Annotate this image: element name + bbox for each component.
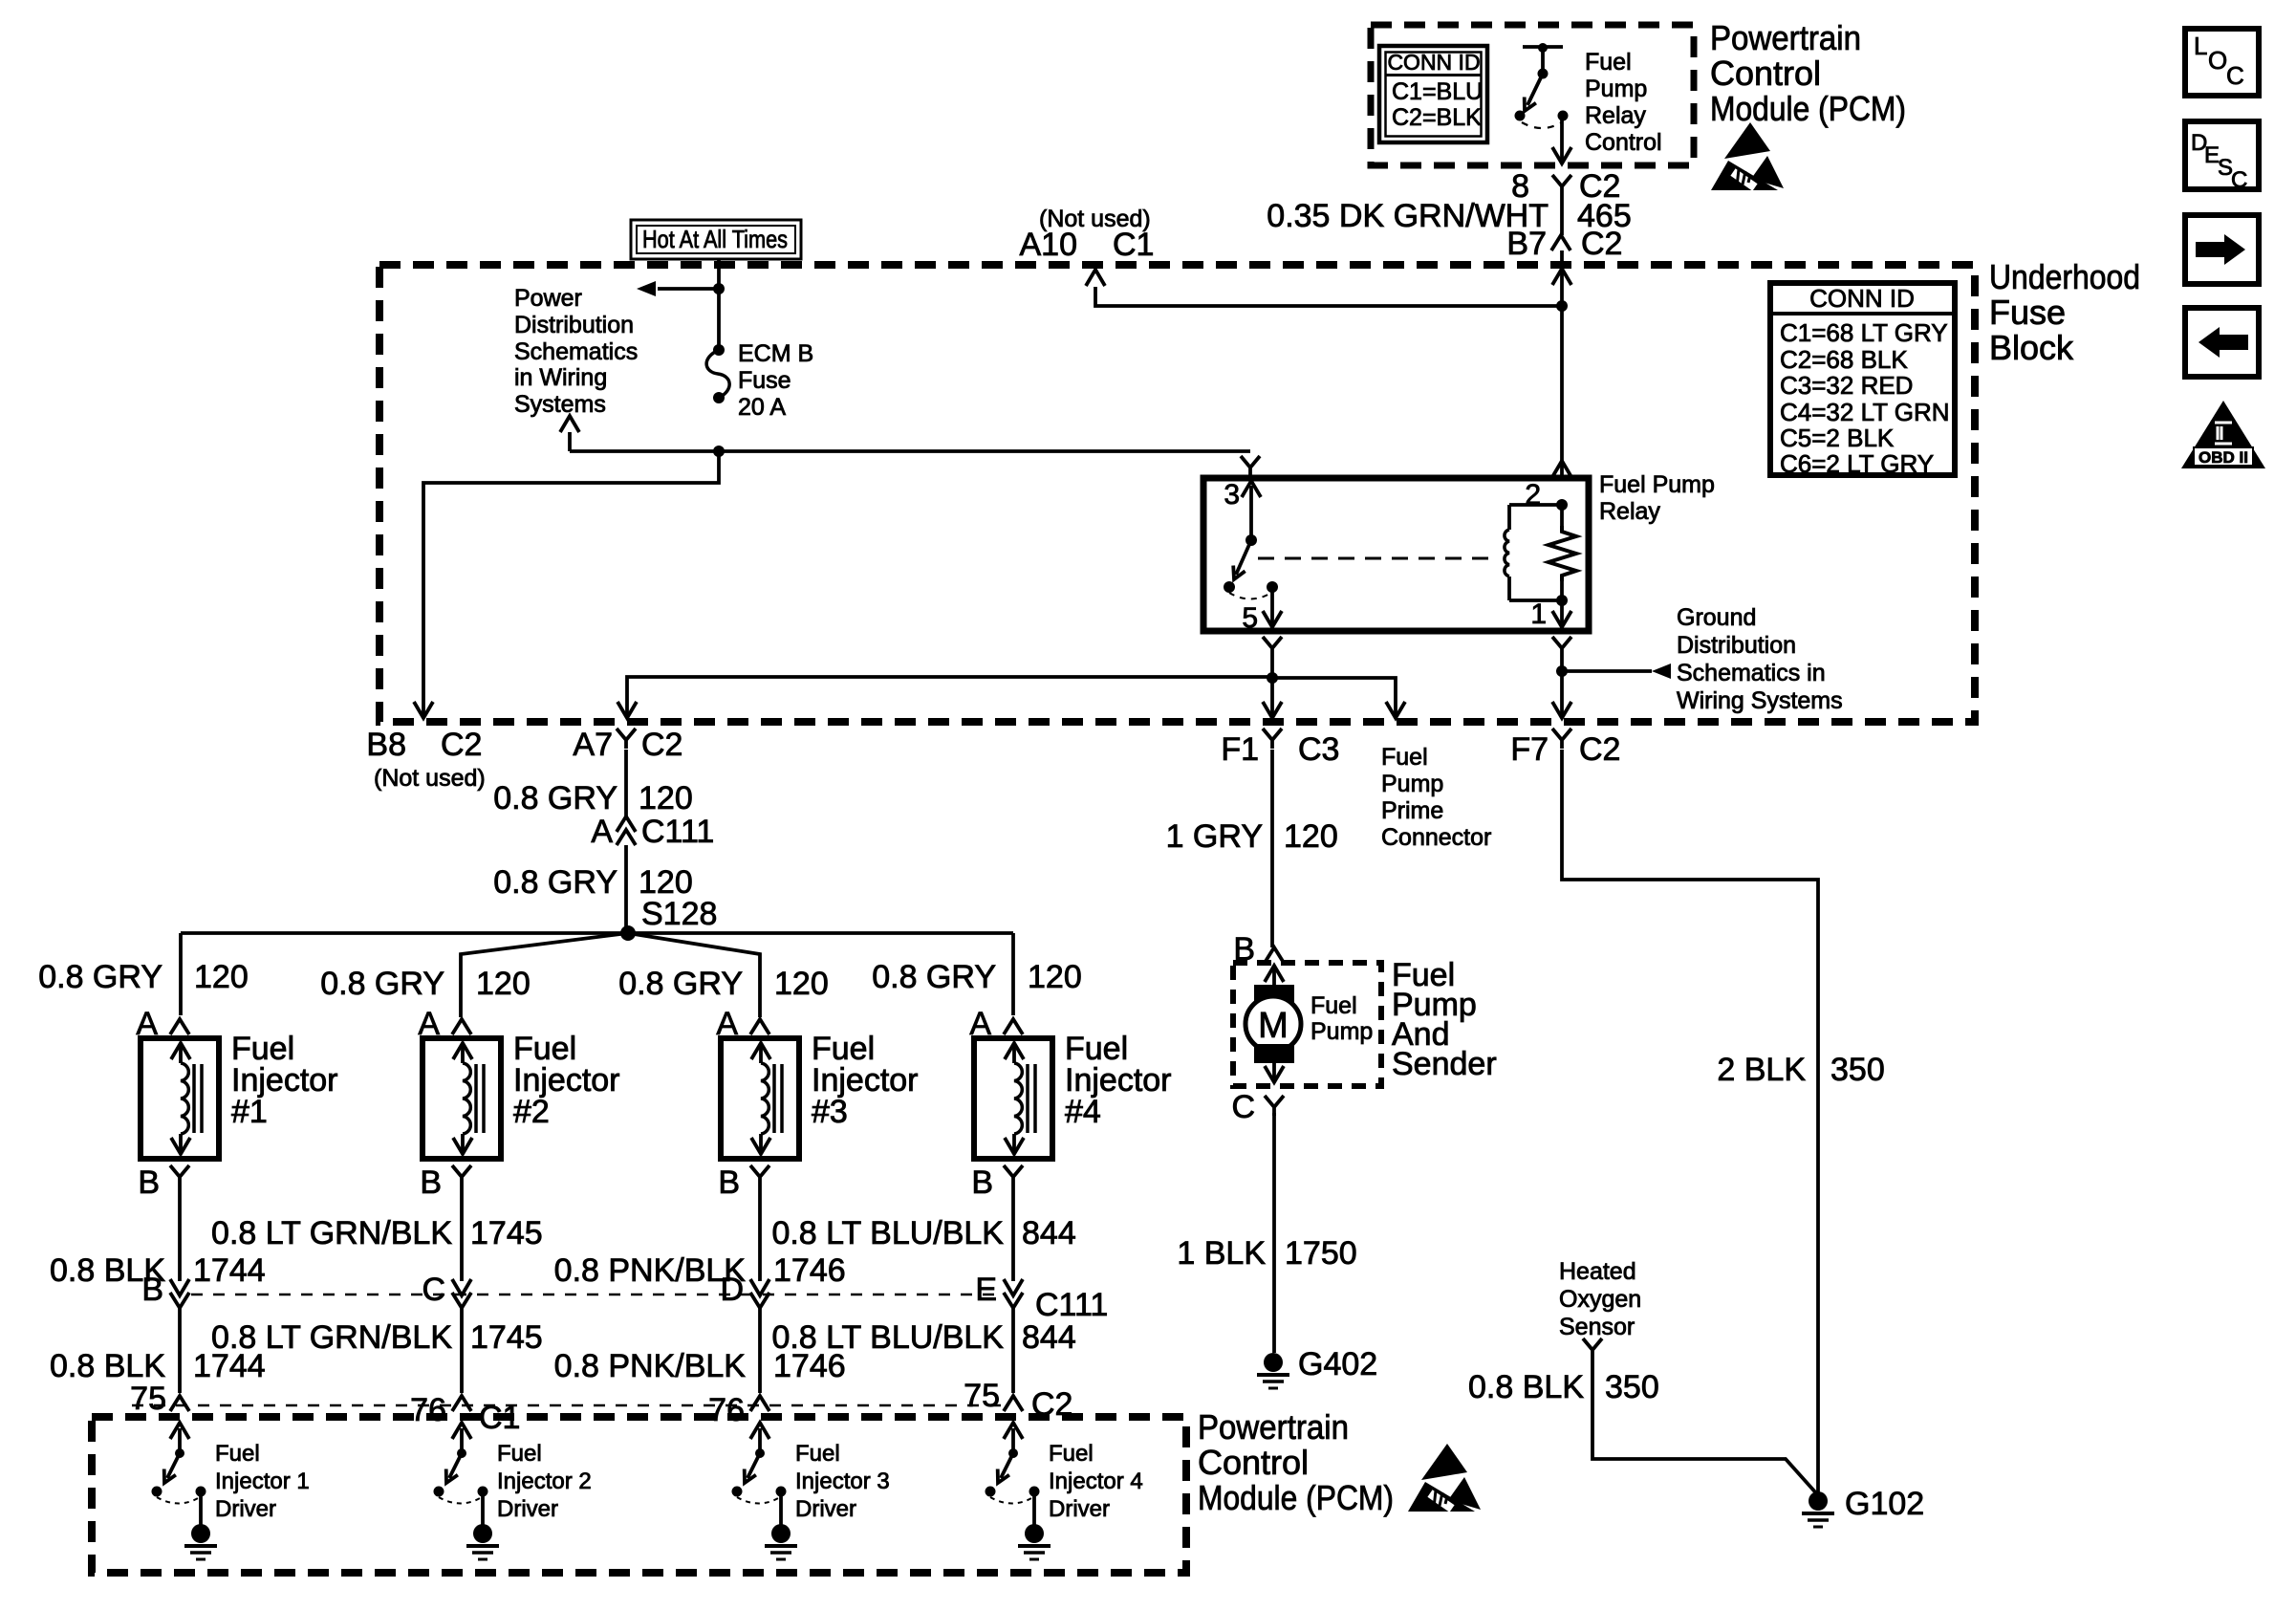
- label: 0.8 LT BLU/BLK 844 upper: [771, 1215, 1075, 1251]
- ground: G102: [1809, 1491, 1828, 1511]
- svg-text:#2: #2: [513, 1094, 550, 1130]
- svg-text:Fuse: Fuse: [738, 367, 791, 394]
- fuel injector #3 solenoid: [721, 1038, 799, 1159]
- svg-text:C2: C2: [441, 727, 482, 763]
- connector: pin C fuel pump: [1231, 1089, 1284, 1125]
- svg-text:120: 120: [476, 966, 531, 1002]
- connector: F7 / C2: [1510, 729, 1620, 768]
- svg-text:0.8 LT GRN/BLK: 0.8 LT GRN/BLK: [211, 1319, 452, 1356]
- svg-text:Module (PCM): Module (PCM): [1198, 1478, 1394, 1517]
- switch: fuel injector 4 driver: [986, 1423, 1040, 1525]
- label: Fuel Injector #1: [231, 1031, 338, 1130]
- svg-text:Block: Block: [1989, 328, 2074, 367]
- svg-text:Module (PCM): Module (PCM): [1710, 89, 1906, 128]
- svg-text:C: C: [2231, 167, 2247, 193]
- wire: branch to A10 (Not used): [1095, 287, 1562, 306]
- CONN ID table (PCM): C1=BLU C2=BLK: [1379, 46, 1487, 142]
- svg-text:C111: C111: [641, 814, 714, 850]
- svg-text:1 GRY: 1 GRY: [1166, 818, 1263, 855]
- svg-text:C2: C2: [1581, 226, 1622, 262]
- svg-text:#1: #1: [231, 1094, 268, 1130]
- svg-text:C2=BLK: C2=BLK: [1392, 104, 1482, 131]
- icon: ESD warning triangles (bottom): [1408, 1444, 1481, 1512]
- node: relay pin2 junction: [1556, 499, 1568, 511]
- svg-text:Driver: Driver: [215, 1496, 276, 1522]
- connector: PCM pin 76 (injector 2): [452, 1396, 471, 1411]
- wire: arrow to Power Distribution Schematics: [658, 287, 719, 291]
- wire: S128 to injector 2 branch: [461, 933, 628, 1017]
- svg-text:B7: B7: [1506, 226, 1547, 262]
- switch: fuel injector 1 driver: [152, 1423, 206, 1525]
- svg-text:Control: Control: [1198, 1443, 1309, 1482]
- connector: pin B injector 3: [718, 1164, 769, 1201]
- label: 0.8 GRY 120 (injector 3): [618, 966, 829, 1002]
- svg-text:#4: #4: [1065, 1094, 1101, 1130]
- label: Fuel Pump Relay Control: [1585, 49, 1662, 156]
- wire: junction to A7: [627, 677, 1272, 715]
- label: Fuel Injector #2: [513, 1031, 620, 1130]
- label: 0.8 BLK 1744 lower: [50, 1348, 266, 1384]
- svg-text:C5=2 BLK: C5=2 BLK: [1780, 424, 1895, 452]
- svg-text:OBD II: OBD II: [2199, 448, 2248, 467]
- svg-text:Sender: Sender: [1392, 1046, 1497, 1082]
- svg-text:0.8 GRY: 0.8 GRY: [872, 959, 996, 995]
- connector: A10 / C1: [1020, 227, 1155, 263]
- wire: pin1 to F7: [1560, 657, 1564, 715]
- svg-text:CONN ID: CONN ID: [1387, 50, 1480, 75]
- wire: injector 2 to C111: [460, 1186, 464, 1281]
- svg-text:C6=2 LT GRY: C6=2 LT GRY: [1780, 449, 1934, 478]
- svg-text:1744: 1744: [193, 1252, 266, 1289]
- svg-text:G102: G102: [1845, 1486, 1924, 1522]
- svg-text:C2: C2: [1579, 731, 1620, 768]
- svg-text:2: 2: [1525, 479, 1541, 511]
- label: pin 76 C1 (injector2): [410, 1392, 520, 1436]
- label: Fuel Injector 1 Driver: [215, 1441, 310, 1522]
- svg-text:1 BLK: 1 BLK: [1177, 1235, 1266, 1272]
- label: 2 BLK 350: [1717, 1052, 1884, 1088]
- label: Fuel Injector 3 Driver: [795, 1441, 890, 1522]
- svg-text:Driver: Driver: [1049, 1496, 1110, 1522]
- relay coil: [1505, 505, 1562, 600]
- svg-text:C2: C2: [641, 727, 682, 763]
- connector: pin B fuel pump: [1233, 931, 1284, 968]
- wire: F7 to G102: [1562, 750, 1818, 1493]
- svg-text:2 BLK: 2 BLK: [1717, 1052, 1806, 1088]
- svg-text:CONN ID: CONN ID: [1809, 284, 1915, 313]
- connector: A / C111 inline: [591, 814, 714, 850]
- node: relay pin1 junction: [1556, 595, 1568, 606]
- svg-text:Driver: Driver: [795, 1496, 856, 1522]
- svg-text:Injector 3: Injector 3: [795, 1469, 890, 1494]
- icon: right arrow box: [2185, 215, 2259, 284]
- svg-text:120: 120: [1284, 818, 1338, 855]
- fuel injector #1 solenoid: [141, 1038, 219, 1159]
- svg-text:Injector 4: Injector 4: [1049, 1469, 1143, 1494]
- svg-text:C: C: [1231, 1089, 1255, 1125]
- connector: C111 inline below injector 1: [141, 1272, 189, 1308]
- svg-text:0.8 BLK: 0.8 BLK: [50, 1348, 165, 1384]
- connector: pin A injector 1: [136, 1006, 189, 1042]
- connector: pin A injector 4: [969, 1006, 1023, 1042]
- wire: to ground distribution arrow: [1562, 669, 1652, 673]
- svg-text:0.8 BLK: 0.8 BLK: [50, 1252, 165, 1289]
- label: 0.35 DK GRN/WHT 465: [1267, 198, 1631, 234]
- ground: injector 3 driver ground: [771, 1524, 791, 1543]
- connector: relay pin 3 entry: [1241, 456, 1260, 476]
- svg-text:Pump: Pump: [1585, 76, 1647, 102]
- connector: B7 / C2 at fuse block: [1506, 226, 1622, 262]
- svg-text:76: 76: [708, 1392, 745, 1428]
- svg-text:C: C: [2226, 61, 2244, 90]
- svg-text:Oxygen: Oxygen: [1559, 1286, 1641, 1313]
- label: 0.8 PNK/BLK 1746 upper: [554, 1252, 846, 1289]
- wire: O2 sensor ground to G102: [1592, 1359, 1818, 1495]
- svg-text:Schematics in: Schematics in: [1677, 660, 1826, 686]
- label: Powertrain Control Module (PCM) title: [1710, 18, 1906, 128]
- svg-text:75: 75: [130, 1381, 166, 1417]
- wire: S128 to injector 3 branch: [628, 933, 760, 1017]
- svg-text:M: M: [1258, 1006, 1289, 1046]
- wire: S128 bus: [181, 931, 1013, 935]
- connector: B8 / C2 (Not used): [366, 727, 485, 792]
- connector: F1 / C3: [1221, 729, 1339, 768]
- svg-text:Systems: Systems: [514, 391, 606, 418]
- svg-text:Hot At All Times: Hot At All Times: [642, 225, 788, 253]
- wire: relay pin 5 internal: [1270, 587, 1274, 623]
- ground: injector 1 driver ground: [191, 1524, 210, 1543]
- motor: fuel pump: [1245, 966, 1301, 1082]
- fuel injector #4 solenoid: [974, 1038, 1052, 1159]
- svg-text:Fuel Pump: Fuel Pump: [1599, 471, 1715, 498]
- icon: OBD II triangle: [2181, 401, 2265, 468]
- connector line: C111 dashed: [191, 1294, 1002, 1296]
- svg-text:0.8 LT BLU/BLK: 0.8 LT BLU/BLK: [771, 1215, 1004, 1251]
- label: 0.8 LT GRN/BLK 1745 lower: [211, 1319, 543, 1356]
- label: Power Distribution Schematics in Wiring Systems: [514, 285, 638, 418]
- connector: pin B injector 4: [971, 1164, 1023, 1201]
- wire: C111 to PCM pin (injector 4): [1011, 1308, 1015, 1393]
- svg-text:in Wiring: in Wiring: [514, 364, 607, 391]
- svg-text:1: 1: [1530, 598, 1547, 630]
- wire: coil/resistor to pin 2: [1560, 505, 1564, 526]
- label: 0.8 GRY 120 (A7): [493, 780, 693, 816]
- svg-text:Driver: Driver: [497, 1496, 558, 1522]
- ground: G402: [1264, 1353, 1283, 1372]
- svg-text:Wiring Systems: Wiring Systems: [1677, 687, 1843, 714]
- module box: Powertrain Control Module (PCM), top: [1371, 25, 1694, 165]
- svg-text:Sensor: Sensor: [1559, 1314, 1635, 1340]
- wire: injector 3 to C111: [758, 1186, 762, 1281]
- svg-text:F1: F1: [1221, 731, 1259, 768]
- node: splice S128: [620, 925, 636, 941]
- connector: relay pin 1 exit: [1552, 637, 1571, 657]
- svg-text:120: 120: [1028, 959, 1082, 995]
- fuse F1: ECM B Fuse 20 A: [706, 344, 729, 403]
- wire: Hot At All Times feed down to fuse: [717, 259, 721, 350]
- label: 1 BLK 1750: [1177, 1235, 1356, 1272]
- svg-text:Relay: Relay: [1599, 498, 1660, 525]
- ground: injector 4 driver ground: [1025, 1524, 1044, 1543]
- svg-text:5: 5: [1242, 602, 1258, 634]
- svg-text:120: 120: [774, 966, 829, 1002]
- label: Underhood Fuse Block title: [1989, 257, 2140, 367]
- svg-text:Injector 1: Injector 1: [215, 1469, 310, 1494]
- label: 0.8 BLK 1744 upper: [50, 1252, 266, 1289]
- label: 0.8 BLK 350 (O2): [1468, 1369, 1659, 1405]
- svg-text:Distribution: Distribution: [514, 312, 634, 338]
- label: Fuel Pump (inside box): [1310, 992, 1373, 1045]
- svg-text:Connector: Connector: [1381, 824, 1491, 851]
- connector: relay pin 5 exit: [1263, 637, 1282, 657]
- svg-text:844: 844: [1022, 1319, 1076, 1356]
- wire: fuse to relay pin 3: [719, 449, 1250, 453]
- module box: Fuel Pump And Sender: [1233, 963, 1381, 1086]
- svg-text:C111: C111: [1035, 1287, 1108, 1323]
- svg-text:Injector 2: Injector 2: [497, 1469, 592, 1494]
- label: 0.8 GRY 120 (injector 2): [320, 966, 531, 1002]
- svg-text:Underhood: Underhood: [1989, 257, 2140, 296]
- label: 0.8 LT GRN/BLK 1745 upper: [211, 1215, 543, 1251]
- node: junction below fuse: [713, 446, 725, 457]
- svg-text:120: 120: [639, 780, 693, 816]
- connector: C111 inline below injector 2: [422, 1272, 471, 1308]
- svg-text:C1: C1: [1113, 227, 1154, 263]
- svg-text:76: 76: [410, 1392, 446, 1428]
- wire: F1 to fuel pump B: [1270, 750, 1274, 947]
- svg-text:L: L: [2194, 32, 2207, 60]
- connector: pin B injector 2: [420, 1164, 471, 1201]
- node: junction at power feed: [713, 283, 725, 294]
- svg-text:Distribution: Distribution: [1677, 632, 1796, 659]
- wire: S128 to injector 4 branch: [1011, 933, 1015, 1015]
- label: 0.8 PNK/BLK 1746 lower: [554, 1348, 846, 1384]
- svg-text:Control: Control: [1585, 129, 1662, 156]
- svg-text:Fuel: Fuel: [1310, 992, 1357, 1019]
- module box: Underhood Fuse Block: [379, 265, 1975, 722]
- svg-text:350: 350: [1830, 1052, 1885, 1088]
- svg-text:Pump: Pump: [1310, 1018, 1373, 1045]
- switch: relay contact arm: [1224, 534, 1278, 599]
- connector: pin B injector 1: [138, 1164, 189, 1201]
- module box: Powertrain Control Module (PCM), bottom: [92, 1417, 1186, 1573]
- label: ECM B Fuse 20 A: [738, 340, 813, 421]
- svg-text:A7: A7: [573, 727, 613, 763]
- svg-text:0.8 GRY: 0.8 GRY: [493, 780, 617, 816]
- svg-text:Fuse: Fuse: [1989, 293, 2066, 332]
- label: Fuel Injector #4: [1065, 1031, 1172, 1130]
- node: junction pin5 wire: [1267, 672, 1278, 684]
- svg-text:Fuel: Fuel: [497, 1441, 542, 1467]
- wire: PCM pin 8 to B7: [1560, 195, 1564, 235]
- label: Ground Distribution Schematics in Wiring Systems: [1677, 604, 1843, 714]
- ground: injector 2 driver ground: [473, 1524, 492, 1543]
- svg-text:3: 3: [1224, 479, 1240, 511]
- label: Fuel Pump And Sender: [1392, 957, 1497, 1082]
- svg-text:0.8 BLK: 0.8 BLK: [1468, 1369, 1584, 1405]
- wire: injector 1 to C111: [178, 1186, 182, 1281]
- node: junction pin1 wire: [1556, 665, 1568, 677]
- wire: relay pin 3 internal: [1249, 486, 1253, 540]
- svg-text:A10: A10: [1020, 227, 1078, 263]
- relay box: Fuel Pump Relay: [1203, 478, 1589, 631]
- svg-text:E: E: [975, 1272, 997, 1308]
- wire: C111 to S128: [624, 845, 628, 933]
- svg-text:#3: #3: [812, 1094, 848, 1130]
- svg-text:0.8 GRY: 0.8 GRY: [493, 864, 617, 901]
- label: Heated Oxygen Sensor: [1559, 1258, 1641, 1340]
- switch: fuel pump relay control driver (inside PCM): [1515, 43, 1572, 163]
- svg-text:F7: F7: [1510, 731, 1549, 768]
- svg-text:75: 75: [964, 1378, 1000, 1414]
- svg-text:B: B: [420, 1164, 442, 1201]
- svg-text:Fuel: Fuel: [215, 1441, 260, 1467]
- connector: PCM pin 76 (injector 3): [750, 1396, 769, 1411]
- label: pin 75 C2 (injector4): [964, 1378, 1072, 1423]
- svg-text:O: O: [2208, 46, 2227, 75]
- connector: pin A injector 2: [418, 1006, 471, 1042]
- box: Hot At All Times tag: [631, 220, 801, 259]
- wire: C111 to PCM pin (injector 2): [460, 1308, 464, 1393]
- svg-text:Ground: Ground: [1677, 604, 1756, 631]
- wire: arrow up to Power Distribution (second): [570, 449, 719, 453]
- label: 1 GRY 120: [1166, 818, 1338, 855]
- relay resistor: [1549, 526, 1576, 581]
- svg-text:C1=BLU: C1=BLU: [1392, 78, 1483, 105]
- svg-text:B: B: [138, 1164, 160, 1201]
- connector: C111 inline below injector 3: [720, 1272, 769, 1308]
- icon: ESD warning triangles (top): [1711, 122, 1784, 190]
- wire: B7 down to relay pin 2: [1560, 268, 1564, 476]
- label: Fuel Pump Prime Connector: [1381, 744, 1491, 851]
- label: Fuel Injector 2 Driver: [497, 1441, 592, 1522]
- svg-text:Fuel: Fuel: [1381, 744, 1428, 771]
- svg-text:0.8 GRY: 0.8 GRY: [320, 966, 444, 1002]
- wire: into fuse block at B7: [1560, 250, 1564, 266]
- svg-text:0.8 GRY: 0.8 GRY: [618, 966, 743, 1002]
- svg-text:B: B: [971, 1164, 993, 1201]
- svg-text:Pump: Pump: [1381, 771, 1443, 797]
- svg-text:Relay: Relay: [1585, 102, 1646, 129]
- svg-text:Fuel: Fuel: [795, 1441, 840, 1467]
- connector: PCM pin 75 (injector 1): [170, 1396, 189, 1411]
- wire: injector 4 to C111: [1011, 1186, 1015, 1281]
- svg-text:Schematics: Schematics: [514, 338, 638, 365]
- svg-text:C1=68 LT GRY: C1=68 LT GRY: [1780, 318, 1948, 347]
- label: 0.8 LT BLU/BLK 844 lower: [771, 1319, 1075, 1356]
- svg-text:C4=32 LT GRN: C4=32 LT GRN: [1780, 398, 1950, 426]
- wire: pin1 internal: [1560, 581, 1564, 600]
- svg-text:Control: Control: [1710, 54, 1821, 93]
- node: junction at B7 wire: [1556, 300, 1568, 312]
- switch: fuel injector 3 driver: [732, 1423, 787, 1525]
- svg-text:20 A: 20 A: [738, 394, 786, 421]
- label: Fuel Pump Relay: [1599, 471, 1715, 525]
- svg-text:844: 844: [1022, 1215, 1076, 1251]
- icon: left arrow box: [2185, 308, 2259, 377]
- svg-text:1746: 1746: [773, 1252, 846, 1289]
- wire: S128 to injector 1 branch: [179, 933, 183, 1015]
- svg-text:0.8 PNK/BLK: 0.8 PNK/BLK: [554, 1348, 747, 1384]
- svg-text:Fuel: Fuel: [1049, 1441, 1094, 1467]
- icon: DESC box: [2185, 121, 2259, 193]
- label: Powertrain Control Module (PCM) bottom title: [1198, 1407, 1394, 1517]
- label: 0.8 GRY 120 (injector 4): [872, 959, 1082, 995]
- svg-text:Prime: Prime: [1381, 797, 1443, 824]
- wire: pin5 to F1: [1270, 657, 1274, 715]
- svg-text:C2=68 BLK: C2=68 BLK: [1780, 345, 1908, 374]
- svg-text:1750: 1750: [1285, 1235, 1357, 1272]
- connector: A7 / C2: [573, 727, 682, 763]
- fuel injector #2 solenoid: [422, 1038, 501, 1159]
- svg-text:120: 120: [194, 959, 249, 995]
- label: Fuel Injector 4 Driver: [1049, 1441, 1143, 1522]
- svg-text:(Not used): (Not used): [374, 765, 486, 792]
- wire: C111 to PCM pin (injector 3): [758, 1308, 762, 1393]
- connector line: PCM 75/76 dashed: [132, 1404, 1002, 1407]
- label: 0.8 GRY 120 (injector 1): [38, 959, 249, 995]
- label: 0.8 GRY 120 (C111-S128): [493, 864, 693, 901]
- svg-text:0.8 PNK/BLK: 0.8 PNK/BLK: [554, 1252, 747, 1289]
- connector: pin 8 / C2 at PCM: [1511, 168, 1620, 205]
- icon: LOC box: [2185, 29, 2259, 96]
- svg-text:Powertrain: Powertrain: [1710, 18, 1861, 57]
- svg-text:0.8 LT GRN/BLK: 0.8 LT GRN/BLK: [211, 1215, 452, 1251]
- svg-text:Powertrain: Powertrain: [1198, 1407, 1349, 1447]
- switch: fuel injector 2 driver: [434, 1423, 488, 1525]
- wire: fuel pump C to G402: [1272, 1113, 1276, 1353]
- svg-text:C: C: [422, 1272, 445, 1308]
- svg-text:0.8 LT BLU/BLK: 0.8 LT BLU/BLK: [771, 1319, 1004, 1356]
- wire: fuse block internal to B8: [423, 451, 719, 715]
- svg-text:A: A: [591, 814, 613, 850]
- connector: PCM pin 75 (injector 4): [1004, 1396, 1023, 1411]
- svg-text:350: 350: [1605, 1369, 1659, 1405]
- dashed link: relay actuation: [1258, 557, 1497, 560]
- svg-text:S128: S128: [641, 896, 717, 932]
- CONN ID table (fuse block): [1770, 283, 1955, 478]
- svg-text:C3=32 RED: C3=32 RED: [1780, 371, 1913, 400]
- svg-text:C3: C3: [1298, 731, 1339, 768]
- svg-text:Power: Power: [514, 285, 582, 312]
- svg-text:B: B: [718, 1164, 740, 1201]
- svg-text:1745: 1745: [470, 1215, 543, 1251]
- svg-text:0.8 GRY: 0.8 GRY: [38, 959, 162, 995]
- svg-text:1745: 1745: [470, 1319, 543, 1356]
- svg-text:ECM B: ECM B: [738, 340, 813, 367]
- wire: junction to fuel pump prime: [1272, 678, 1396, 715]
- svg-text:B8: B8: [366, 727, 406, 763]
- wire: C111 to PCM pin (injector 1): [178, 1308, 182, 1393]
- svg-text:Fuel: Fuel: [1585, 49, 1632, 76]
- connector: heated oxygen sensor: [1583, 1338, 1602, 1359]
- connector: C111 inline below injector 4: [975, 1272, 1023, 1308]
- label: Fuel Injector #3: [812, 1031, 919, 1130]
- wire: A7 to C111: [624, 750, 628, 816]
- svg-text:G402: G402: [1298, 1346, 1377, 1382]
- svg-text:Heated: Heated: [1559, 1258, 1636, 1285]
- connector: pin A injector 3: [716, 1006, 769, 1042]
